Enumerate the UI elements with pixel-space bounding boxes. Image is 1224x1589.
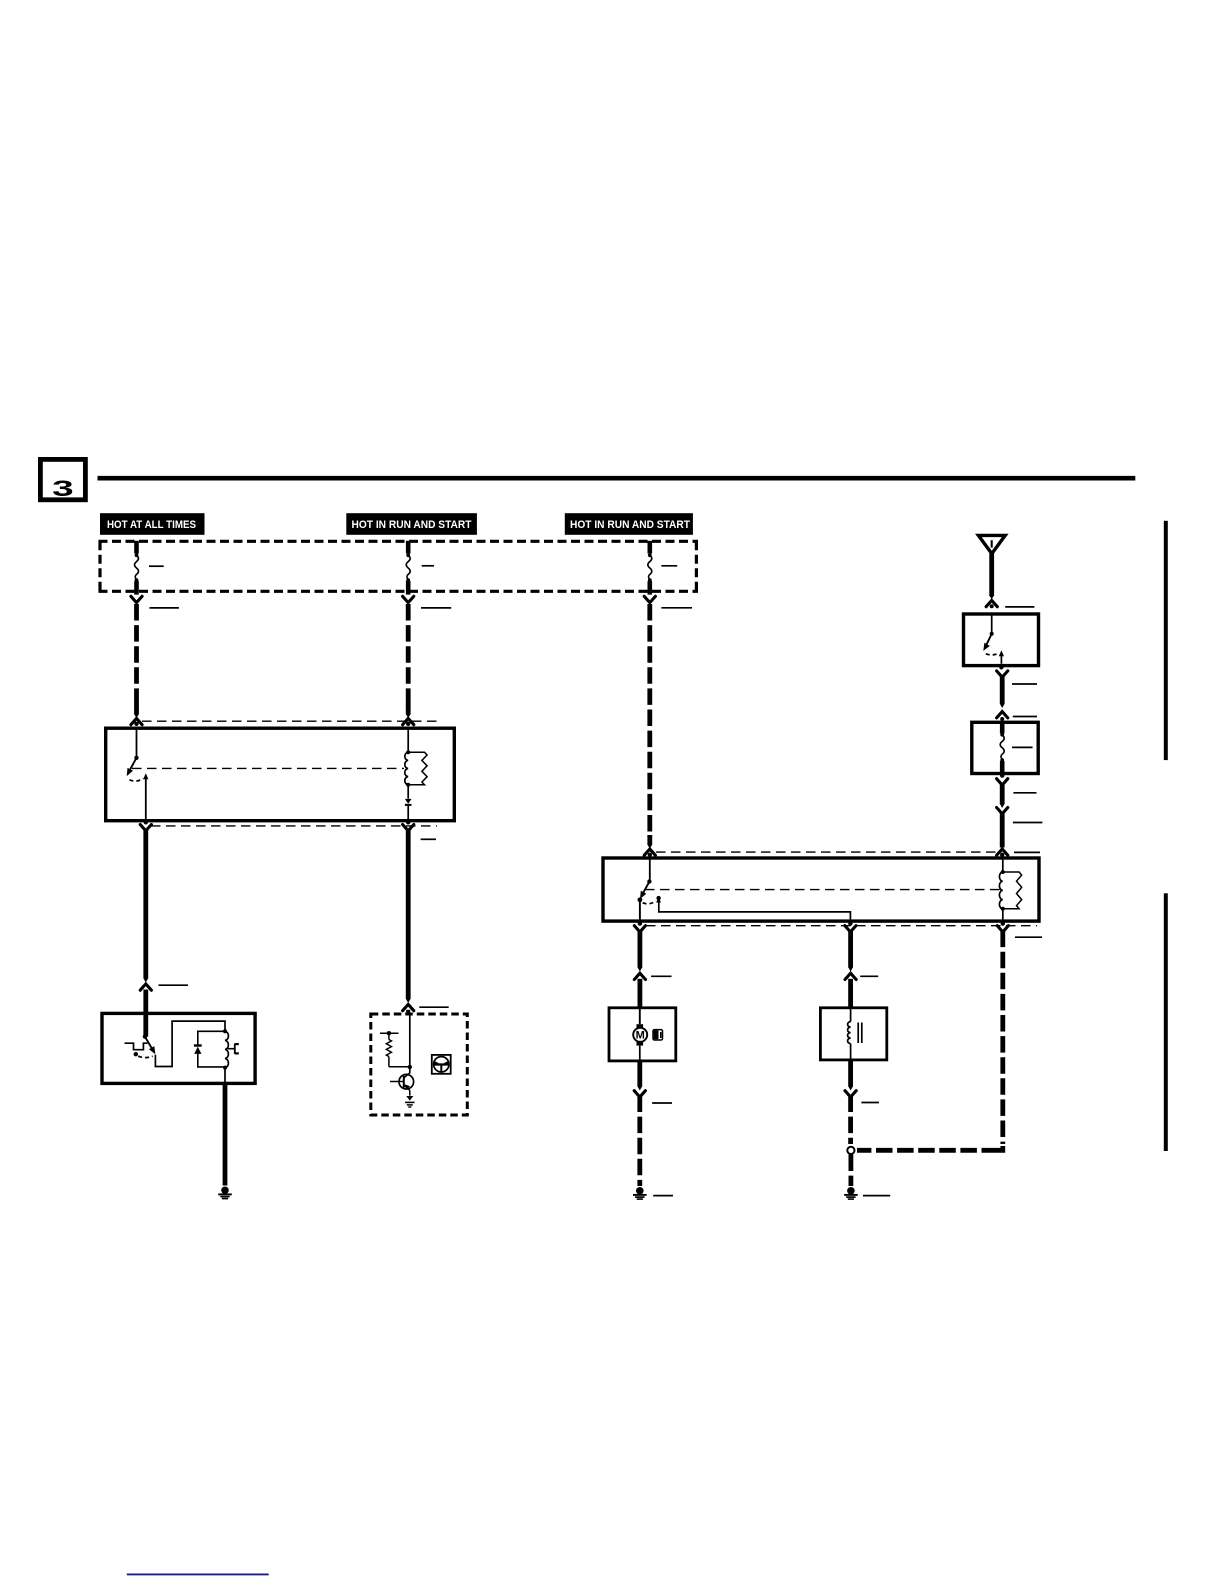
svg-text:HOT AT ALL TIMES: HOT AT ALL TIMES xyxy=(107,519,196,531)
svg-text:M: M xyxy=(636,1030,645,1042)
svg-text:HOT IN RUN AND START: HOT IN RUN AND START xyxy=(570,519,690,531)
svg-text:3: 3 xyxy=(52,475,74,501)
svg-text:HOT IN RUN AND START: HOT IN RUN AND START xyxy=(352,519,472,531)
